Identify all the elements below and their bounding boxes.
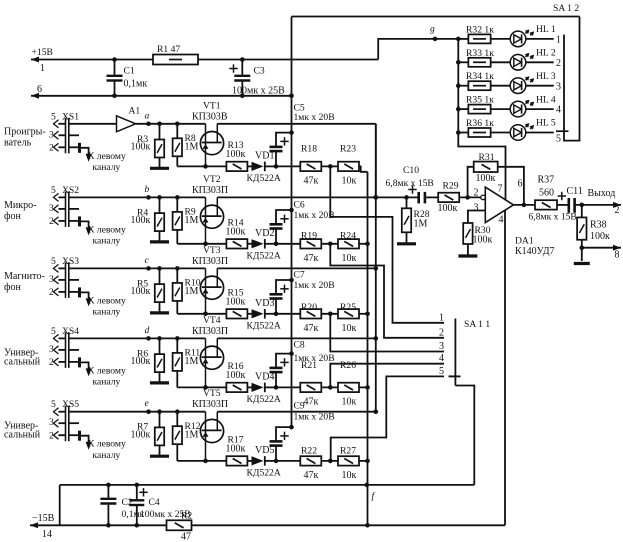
svg-text:Проигры-: Проигры- — [4, 126, 46, 137]
label XS5 pins — [49, 399, 79, 441]
resistor R14 — [206, 217, 248, 248]
node f — [365, 483, 376, 502]
label К левому каналу ch1 — [88, 151, 126, 173]
svg-text:SA 1 2: SA 1 2 — [553, 3, 579, 14]
svg-text:C3: C3 — [254, 66, 265, 77]
wire source row ch3 — [177, 312, 208, 317]
wire VT4 drain to col X1 — [217, 336, 378, 341]
wire bottom rail A — [60, 484, 475, 486]
svg-text:8: 8 — [615, 249, 620, 260]
svg-text:R21: R21 — [301, 360, 317, 371]
svg-text:6: 6 — [518, 179, 523, 190]
svg-text:R32 1к: R32 1к — [466, 24, 494, 35]
capacitor C4 100мк х 25В — [129, 483, 190, 528]
svg-text:3: 3 — [49, 129, 54, 140]
svg-text:1М: 1М — [185, 430, 199, 441]
svg-text:К левому: К левому — [88, 151, 126, 162]
SA1.2 wiper — [556, 130, 569, 132]
node divider tap ch2 — [322, 242, 339, 247]
svg-text:3: 3 — [474, 203, 479, 214]
wire tap ch2 to contact 2 — [330, 244, 444, 338]
resistor R31 100к feedback — [468, 152, 524, 205]
wire XS1 to A1 — [69, 123, 117, 125]
label SA 1 2 — [553, 3, 579, 14]
resistor R25 10к — [338, 302, 359, 334]
svg-text:КП303В: КП303В — [192, 111, 228, 122]
resistor R27 10к — [338, 445, 359, 481]
transistor VT4 КП303П — [192, 315, 228, 388]
label XS2 pins — [49, 185, 79, 227]
node e — [145, 398, 151, 414]
label pin 14 — [42, 529, 52, 540]
svg-text:HL 2: HL 2 — [536, 48, 556, 59]
svg-text:1мк х 20В: 1мк х 20В — [294, 280, 335, 291]
svg-text:R31: R31 — [479, 152, 495, 163]
svg-text:R33 1к: R33 1к — [466, 48, 494, 59]
wire XS5 to gate — [69, 411, 206, 413]
resistor R10 — [173, 266, 201, 314]
svg-text:1мк х 20В: 1мк х 20В — [294, 210, 335, 221]
svg-text:14: 14 — [42, 529, 52, 540]
resistor R19 47к — [300, 230, 321, 263]
resistor R8 — [173, 122, 199, 167]
label Выход — [588, 188, 616, 199]
label SA 1 1 — [464, 319, 490, 330]
svg-text:100к: 100к — [226, 226, 246, 237]
wire R25 out to common col — [359, 312, 370, 317]
svg-text:+15В: +15В — [32, 47, 53, 58]
resistor R5 — [131, 266, 165, 312]
wire main bus — [291, 17, 293, 428]
svg-text:2: 2 — [49, 216, 54, 227]
node divider tap ch4 — [322, 385, 339, 390]
resistor R36 1к — [458, 118, 510, 137]
resistor R3 — [131, 122, 165, 168]
label input name Микро-фон — [4, 200, 36, 222]
wire rail B right of R2 — [192, 524, 505, 526]
resistor R26 10к — [338, 360, 359, 408]
svg-text:47к: 47к — [304, 323, 319, 334]
svg-text:2: 2 — [49, 357, 54, 368]
wire source row crossing bus ch1 — [276, 165, 300, 167]
svg-text:−15В: −15В — [32, 513, 55, 524]
resistor R7 — [131, 409, 165, 455]
capacitor C11 6,8мк х 15В — [529, 186, 583, 223]
svg-text:C6: C6 — [294, 200, 305, 211]
LED HL5 — [510, 118, 556, 141]
svg-text:560: 560 — [539, 188, 554, 199]
svg-text:VT2: VT2 — [203, 174, 221, 185]
svg-text:4: 4 — [439, 353, 444, 364]
capacitor C1 — [107, 57, 123, 98]
svg-text:1мк х 20В: 1мк х 20В — [294, 112, 335, 123]
wire rail 6 — [31, 93, 294, 99]
svg-text:Магнито-: Магнито- — [4, 271, 45, 282]
svg-text:каналу: каналу — [93, 377, 121, 388]
wire XS3 strap — [69, 280, 80, 298]
svg-text:47к: 47к — [304, 175, 319, 186]
ground R7 — [150, 455, 169, 458]
wire common divider column — [367, 172, 369, 485]
svg-text:К левому: К левому — [88, 439, 126, 450]
svg-text:каналу: каналу — [93, 236, 121, 247]
label SA1.2 contact 1 — [556, 35, 561, 46]
wire source row ch4 — [177, 385, 208, 390]
svg-text:A1: A1 — [129, 105, 141, 116]
svg-text:100к: 100к — [131, 356, 151, 367]
svg-text:К левому: К левому — [88, 295, 126, 306]
svg-text:КД522А: КД522А — [247, 251, 281, 262]
wire R23 out jog to common col — [359, 166, 368, 171]
label XS4 pins — [49, 326, 79, 368]
wire SA1.1 pole — [454, 319, 456, 386]
wire top rail — [292, 16, 580, 18]
svg-text:1М: 1М — [185, 286, 199, 297]
svg-text:100к: 100к — [131, 215, 151, 226]
svg-text:5: 5 — [51, 185, 56, 196]
svg-text:C10: C10 — [403, 165, 419, 176]
svg-text:каналу: каналу — [93, 162, 121, 173]
op-amp buffer A1 — [117, 105, 141, 132]
svg-text:XS3: XS3 — [62, 256, 79, 267]
svg-text:5: 5 — [51, 111, 56, 122]
svg-text:VT1: VT1 — [203, 100, 221, 111]
svg-text:Выход: Выход — [588, 188, 616, 199]
resistor R12 — [173, 409, 201, 460]
svg-text:5: 5 — [51, 399, 56, 410]
wire column X1 — [375, 124, 377, 412]
svg-text:100к: 100к — [438, 203, 458, 214]
svg-text:100к: 100к — [131, 286, 151, 297]
wire LED bus to op-amp pin7 — [458, 133, 505, 200]
svg-text:КД522А: КД522А — [247, 468, 281, 479]
label pin 1 — [40, 63, 45, 74]
wire to left channel arrow ch1 — [80, 148, 92, 162]
svg-text:КП303П: КП303П — [192, 256, 228, 267]
capacitor C3 — [229, 57, 250, 98]
svg-text:C7: C7 — [294, 270, 305, 281]
transistor VT3 КП303П — [192, 245, 228, 314]
svg-text:2: 2 — [615, 205, 620, 216]
wire R24 out to common col — [359, 242, 370, 247]
svg-text:100к: 100к — [226, 149, 246, 160]
ground R38 — [574, 262, 590, 265]
ground R30 — [458, 254, 477, 257]
node c — [145, 255, 151, 271]
label C3 100мк х 25В — [232, 66, 285, 97]
svg-text:d: d — [145, 325, 150, 336]
svg-text:10к: 10к — [342, 470, 357, 481]
svg-text:сальный: сальный — [4, 356, 41, 367]
svg-text:каналу: каналу — [93, 450, 121, 461]
label SA1.1 contact 3 — [439, 341, 444, 352]
wire tap ch4 to contact 4 — [330, 364, 444, 388]
svg-text:R20: R20 — [301, 302, 317, 313]
wire source row crossing bus ch3 — [276, 313, 300, 315]
svg-text:C2: C2 — [122, 497, 133, 508]
wire +15V rail — [31, 57, 153, 63]
resistor R13 — [206, 140, 248, 171]
wire source row crossing bus ch5 — [276, 460, 300, 462]
svg-text:2: 2 — [49, 431, 54, 442]
svg-text:R26: R26 — [340, 360, 356, 371]
wire R27 out to common col — [359, 459, 370, 464]
wire tap ch3 to contact 3 — [330, 314, 444, 352]
label pin 6 — [37, 84, 42, 95]
label -15В — [32, 513, 55, 524]
diode VD2 КД522А — [247, 228, 281, 262]
svg-text:a: a — [145, 110, 150, 121]
svg-text:SA 1 1: SA 1 1 — [464, 319, 490, 330]
svg-text:10к: 10к — [342, 323, 357, 334]
svg-text:VT5: VT5 — [203, 388, 221, 399]
svg-text:100мк х 25В: 100мк х 25В — [140, 509, 191, 520]
resistor R28 1М — [402, 197, 430, 242]
wire source row ch1 — [177, 164, 208, 169]
LED HL2 — [510, 48, 556, 71]
LED HL4 — [510, 94, 556, 117]
svg-text:R1 47: R1 47 — [157, 44, 180, 55]
svg-text:3: 3 — [49, 203, 54, 214]
label SA1.1 contact 5 — [439, 366, 444, 377]
wire to left channel arrow ch5 — [80, 436, 92, 450]
ground R28 — [397, 242, 416, 245]
svg-text:R38: R38 — [590, 220, 607, 231]
resistor R37 560 — [535, 175, 557, 210]
svg-text:100к: 100к — [131, 430, 151, 441]
wire LED 5 to contact — [526, 132, 554, 134]
svg-text:1мк х 20В: 1мк х 20В — [294, 412, 335, 423]
label input name Универ-сальный — [4, 347, 41, 367]
capacitor C7 1мк х 20В — [270, 270, 335, 317]
label К левому каналу ch4 — [88, 365, 126, 387]
resistor R38 100к — [577, 205, 610, 261]
svg-text:5: 5 — [51, 256, 56, 267]
svg-text:C4: C4 — [149, 497, 160, 508]
node b — [145, 184, 151, 200]
svg-text:R36 1к: R36 1к — [466, 118, 494, 129]
resistor R20 47к — [300, 302, 321, 334]
label SA1.2 contact 2 — [556, 58, 561, 69]
capacitor C6 1мк х 20В — [270, 200, 335, 247]
svg-text:100к: 100к — [473, 235, 493, 246]
label SA1.1 contact 1 — [439, 312, 444, 323]
svg-text:VT4: VT4 — [203, 315, 221, 326]
wire rail A left drop — [59, 485, 61, 525]
svg-text:2: 2 — [474, 188, 479, 199]
wire source row ch5 — [177, 459, 208, 464]
resistor R6 — [131, 336, 165, 382]
svg-text:R35 1к: R35 1к — [466, 95, 494, 106]
transistor VT1 КП303В — [192, 100, 228, 166]
wire XS3 to gate — [69, 267, 206, 269]
svg-text:каналу: каналу — [93, 307, 121, 318]
svg-text:XS2: XS2 — [62, 185, 79, 196]
resistor R21 47к — [300, 360, 321, 408]
svg-text:47к: 47к — [304, 253, 319, 264]
svg-text:1М: 1М — [185, 356, 199, 367]
svg-text:g: g — [430, 24, 435, 35]
label XS3 pins — [49, 256, 79, 298]
label output pin 2 — [615, 205, 620, 216]
resistor R2 47 — [167, 511, 193, 542]
svg-text:КД522А: КД522А — [247, 394, 281, 405]
wire LED 4 to contact — [526, 108, 554, 110]
wire op-amp output — [514, 203, 537, 208]
svg-text:HL 3: HL 3 — [536, 71, 556, 82]
wire VT1 drain to col X1 — [217, 124, 375, 198]
label SA1.2 contact 3 — [556, 81, 561, 92]
svg-text:R34 1к: R34 1к — [466, 71, 494, 82]
wire tap ch5 to contact 5 — [331, 376, 444, 461]
label input name Проигры-ватель — [4, 126, 46, 148]
wire XS1 strap — [69, 135, 80, 153]
wire +15V jog to LED feed — [378, 39, 458, 60]
capacitor C2 0,1мк — [100, 483, 144, 528]
svg-text:1М: 1М — [414, 219, 428, 230]
svg-text:2: 2 — [49, 287, 54, 298]
svg-text:R22: R22 — [301, 445, 317, 456]
svg-text:10к: 10к — [342, 175, 357, 186]
label К левому каналу ch2 — [88, 224, 126, 246]
label +15В — [32, 47, 53, 58]
node g — [430, 24, 437, 42]
svg-text:XS4: XS4 — [62, 326, 79, 337]
svg-text:КП303П: КП303П — [192, 399, 228, 410]
resistor R11 — [173, 336, 201, 387]
svg-text:ватель: ватель — [4, 137, 32, 148]
connector XS3 — [54, 262, 69, 298]
wire VT3 drain to col X1 — [217, 266, 378, 271]
svg-text:4: 4 — [556, 105, 561, 116]
label SA1.1 contact 2 — [439, 327, 444, 338]
svg-text:R18: R18 — [301, 144, 317, 155]
svg-text:R23: R23 — [340, 144, 356, 155]
resistor R17 — [206, 435, 248, 466]
svg-text:HL 5: HL 5 — [536, 118, 556, 129]
resistor R9 — [173, 195, 199, 244]
svg-text:XS1: XS1 — [62, 111, 79, 122]
resistor R35 1к — [458, 95, 510, 114]
svg-text:сальный: сальный — [4, 430, 41, 441]
diode VD5 КД522А — [247, 445, 281, 479]
resistor R18 47к — [300, 144, 321, 187]
label SA1.1 contact 4 — [439, 353, 444, 364]
svg-text:C11: C11 — [567, 186, 583, 197]
wire to left channel arrow ch4 — [80, 362, 92, 376]
svg-text:1М: 1М — [185, 215, 199, 226]
svg-text:100к: 100к — [226, 296, 246, 307]
resistor R30 100к — [463, 223, 492, 255]
capacitor C5 1мк х 20В — [270, 103, 335, 169]
ground R6 — [150, 381, 169, 384]
resistor R15 — [206, 287, 248, 318]
node divider tap ch3 — [322, 312, 339, 317]
svg-text:C1: C1 — [124, 66, 135, 77]
label К левому каналу ch5 — [88, 439, 126, 461]
label C1 0,1мк — [124, 66, 148, 90]
wire +15V rail right of R1 — [198, 59, 378, 61]
svg-text:1: 1 — [556, 35, 561, 46]
svg-text:e: e — [145, 398, 150, 409]
svg-text:100к: 100к — [226, 444, 246, 455]
wire -15V rail B — [30, 522, 167, 528]
transistor VT5 КП303П — [192, 388, 228, 461]
svg-text:HL 1: HL 1 — [536, 24, 556, 35]
svg-text:R29: R29 — [443, 181, 459, 192]
svg-text:100к: 100к — [226, 370, 246, 381]
label К левому каналу ch3 — [88, 295, 126, 317]
connector XS2 — [54, 191, 69, 227]
resistor R32 1к — [458, 24, 510, 43]
svg-text:2: 2 — [49, 143, 54, 154]
svg-text:1: 1 — [439, 312, 444, 323]
wire R29 to op-amp — [459, 195, 481, 200]
diode VD1 КД522А — [247, 151, 281, 185]
label input name Универ-сальный — [4, 421, 41, 441]
svg-text:6,8мк х 15В: 6,8мк х 15В — [529, 212, 577, 223]
svg-text:HL 4: HL 4 — [536, 94, 556, 105]
svg-text:6,8мк х 15В: 6,8мк х 15В — [386, 178, 434, 189]
svg-text:3: 3 — [49, 344, 54, 355]
svg-text:5: 5 — [556, 133, 561, 144]
SA1.1 wiper — [449, 375, 461, 377]
wire XS5 strap — [69, 423, 80, 441]
wire LED feed bus — [456, 37, 461, 135]
svg-text:3: 3 — [439, 341, 444, 352]
svg-text:VT3: VT3 — [203, 245, 221, 256]
wire VT2 drain to col X1 — [217, 195, 378, 200]
resistor R4 — [131, 195, 165, 241]
wire LED 1 to contact — [526, 38, 554, 40]
wire source row crossing bus ch4 — [276, 386, 300, 388]
label SA1.2 contact 4 — [556, 105, 561, 116]
resistor R29 100к — [438, 181, 460, 215]
svg-text:R19: R19 — [301, 230, 317, 241]
ground R4 — [150, 240, 169, 243]
wire SA1.1 pole return — [455, 386, 474, 485]
svg-text:КП303П: КП303П — [192, 185, 228, 196]
wire SA1.2 pole hook — [564, 17, 580, 141]
diode VD4 КД522А — [247, 372, 281, 406]
svg-text:фон: фон — [4, 282, 21, 293]
label SA1.2 contact 5 — [556, 133, 561, 144]
svg-text:C8: C8 — [294, 340, 305, 351]
label output pin 8 — [615, 249, 620, 260]
connector XS1 — [54, 118, 69, 154]
svg-text:3: 3 — [49, 417, 54, 428]
wire to pin 8 arrow — [582, 245, 621, 251]
svg-text:R24: R24 — [340, 230, 356, 241]
transistor VT2 КП303П — [192, 174, 228, 244]
node divider tap ch1 — [322, 164, 339, 169]
resistor R24 10к — [338, 230, 359, 263]
wire LED 3 to contact — [526, 85, 554, 87]
wire op-amp pin3 to R30 — [468, 211, 485, 225]
resistor R23 10к — [338, 144, 359, 187]
svg-text:10к: 10к — [342, 396, 357, 407]
wire source row ch2 — [177, 242, 208, 247]
svg-text:5: 5 — [51, 326, 56, 337]
svg-text:3: 3 — [556, 81, 561, 92]
node d — [145, 325, 151, 341]
svg-text:КД522А: КД522А — [247, 173, 281, 184]
capacitor C9 1мк х 20В — [270, 401, 335, 464]
svg-text:фон: фон — [4, 211, 21, 222]
wire XS2 strap — [69, 209, 80, 227]
svg-text:К левому: К левому — [88, 365, 126, 376]
svg-text:47к: 47к — [304, 470, 319, 481]
